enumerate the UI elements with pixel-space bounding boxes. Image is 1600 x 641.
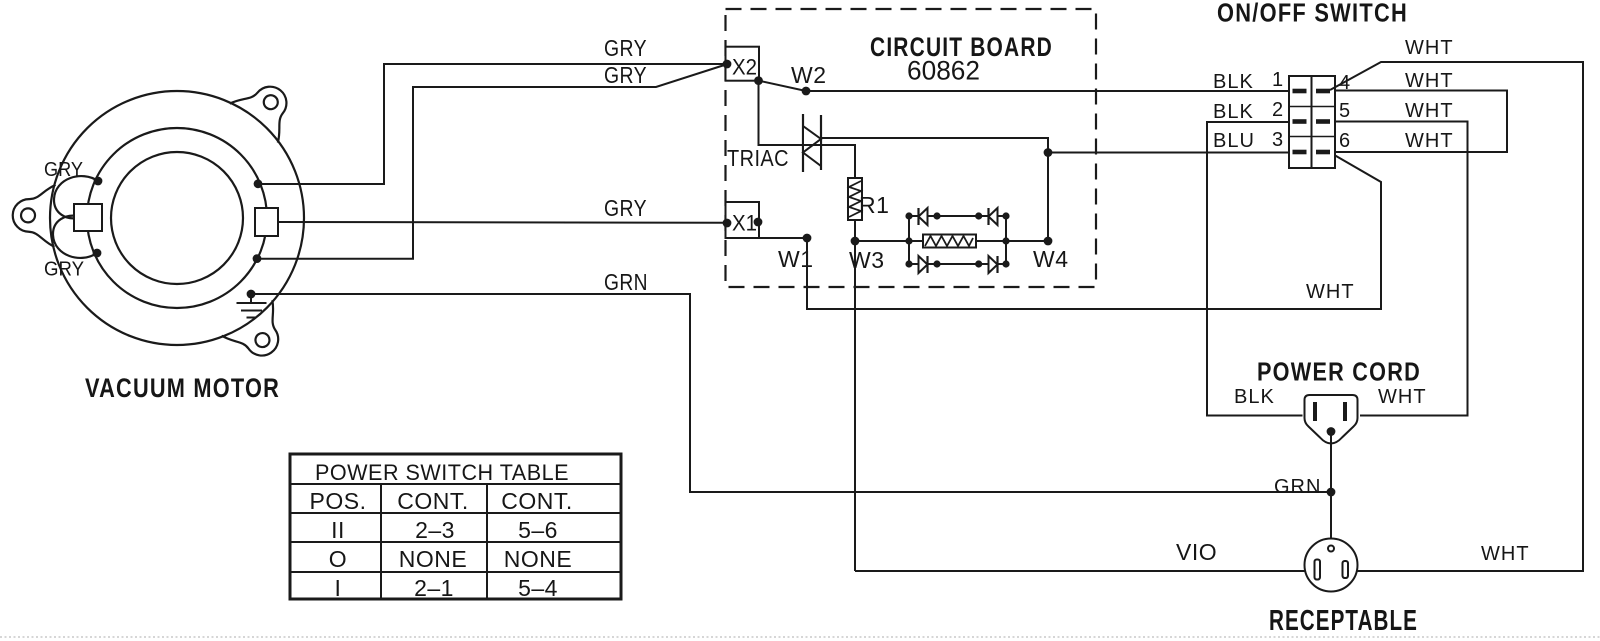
svg-text:6: 6 bbox=[1339, 130, 1351, 152]
power cord plug bbox=[1305, 395, 1358, 444]
node bridge lower mid-right bbox=[975, 260, 982, 267]
svg-text:CONT.: CONT. bbox=[397, 488, 469, 514]
wire bridge upper branch bbox=[909, 215, 1006, 217]
svg-text:POS.: POS. bbox=[310, 488, 367, 514]
wire bridge right column bbox=[1005, 216, 1007, 264]
wire X1 to W1 bbox=[759, 237, 807, 239]
ground bbox=[237, 294, 267, 318]
wire W1 to switch contact 6 bbox=[807, 153, 1381, 310]
svg-text:GRY: GRY bbox=[604, 62, 647, 88]
wire bridge main right (to W4) bbox=[976, 240, 1048, 242]
svg-text:GRN: GRN bbox=[604, 269, 648, 295]
svg-text:WHT: WHT bbox=[1378, 386, 1427, 408]
wire GRN (motor ground to power cord junction) bbox=[251, 294, 1331, 492]
node X2 corner bbox=[754, 76, 763, 85]
motor brush left bbox=[74, 204, 102, 231]
wire bridge left column bbox=[908, 216, 910, 264]
switch contact 2 bbox=[1293, 119, 1307, 124]
wire GRY upper (motor to X2) bbox=[258, 64, 726, 184]
wire GRY second (motor to X2) bbox=[257, 65, 726, 259]
wire triac T2 to node (down to W4) bbox=[822, 138, 1048, 241]
svg-text:2–3: 2–3 bbox=[415, 517, 455, 543]
svg-text:X2: X2 bbox=[732, 55, 757, 80]
node bridge main-right bbox=[1002, 237, 1009, 244]
svg-text:CONT.: CONT. bbox=[501, 488, 573, 514]
svg-text:WHT: WHT bbox=[1306, 281, 1355, 303]
wire W3 down to VIO bbox=[854, 241, 856, 571]
on/off switch body bbox=[1289, 76, 1335, 168]
node GRN junction bbox=[1327, 488, 1336, 497]
svg-text:GRY: GRY bbox=[44, 259, 84, 281]
node motor terminal lower-left bbox=[93, 249, 102, 258]
circuit board dashed border bbox=[726, 9, 1097, 287]
wire R1 bottom lead to W3 bbox=[854, 220, 856, 241]
node motor ground terminal bbox=[247, 290, 256, 299]
node X2 bbox=[723, 60, 732, 69]
svg-text:I: I bbox=[335, 575, 342, 601]
vacuum motor outer housing bbox=[50, 91, 304, 345]
node motor terminal lower-right bbox=[253, 254, 262, 263]
svg-text:WHT: WHT bbox=[1405, 130, 1454, 152]
svg-text:VIO: VIO bbox=[1176, 539, 1217, 565]
wire bridge main left (W3 node) bbox=[855, 240, 923, 242]
resistor bridge middle bbox=[923, 235, 976, 248]
node motor terminal upper-left bbox=[94, 177, 103, 186]
motor mounting ear top-right bbox=[230, 71, 305, 143]
node bridge main-left bbox=[905, 237, 912, 244]
diode upper-left bbox=[919, 208, 928, 225]
svg-text:1: 1 bbox=[1272, 69, 1284, 91]
svg-text:BLU: BLU bbox=[1213, 130, 1255, 152]
svg-text:WHT: WHT bbox=[1405, 37, 1454, 59]
svg-text:BLK: BLK bbox=[1213, 101, 1254, 123]
svg-text:ON/OFF SWITCH: ON/OFF SWITCH bbox=[1217, 0, 1408, 28]
wire TRIAC gate (X2 corner down to R1) bbox=[759, 81, 856, 178]
motor mounting ear bottom-right bbox=[222, 300, 297, 370]
switch contact 5 bbox=[1316, 119, 1330, 124]
wire BLK 2 (switch contact 2 to power cord) bbox=[1207, 122, 1303, 416]
motor field coil upper bbox=[54, 176, 98, 218]
svg-text:GRN: GRN bbox=[1274, 476, 1321, 498]
node X1 bbox=[723, 219, 732, 228]
node bridge lower mid-left bbox=[933, 260, 940, 267]
svg-text:W1: W1 bbox=[778, 246, 814, 272]
svg-text:WHT: WHT bbox=[1405, 70, 1454, 92]
switch contact 4 bbox=[1316, 89, 1330, 94]
svg-text:RECEPTABLE: RECEPTABLE bbox=[1269, 605, 1418, 637]
diode lower-left bbox=[919, 256, 928, 273]
wire VIO to receptacle bbox=[855, 570, 1305, 572]
node BLU junction bbox=[1044, 148, 1053, 157]
wire W2 (X2 to switch contact 1) bbox=[759, 81, 1290, 91]
motor mounting ear left bbox=[12, 184, 55, 247]
wire BLU (node to switch contact 3) bbox=[1048, 152, 1289, 154]
svg-text:W2: W2 bbox=[791, 62, 827, 88]
svg-text:NONE: NONE bbox=[399, 546, 467, 572]
svg-text:3: 3 bbox=[1272, 129, 1284, 151]
node motor terminal upper-right bbox=[254, 179, 263, 188]
terminal X2 bbox=[726, 47, 760, 81]
node X1 corner bbox=[754, 218, 763, 227]
svg-text:BLK: BLK bbox=[1213, 71, 1254, 93]
wire bridge lower branch bbox=[909, 263, 1006, 265]
terminal X1 bbox=[726, 202, 760, 238]
svg-text:GRY: GRY bbox=[604, 195, 647, 221]
node bridge upper mid-left bbox=[933, 212, 940, 219]
svg-text:2–1: 2–1 bbox=[414, 575, 454, 601]
node W4 bbox=[1044, 237, 1053, 246]
receptacle bbox=[1305, 539, 1358, 592]
svg-text:II: II bbox=[331, 517, 345, 543]
node W3 bbox=[851, 237, 860, 246]
wire strap contact 4 to contact 6 bbox=[1335, 91, 1507, 153]
motor rotor bbox=[111, 152, 243, 284]
node bridge lower-left bbox=[905, 260, 912, 267]
wire plug to receptacle bbox=[1330, 432, 1332, 547]
power switch table bbox=[290, 454, 621, 599]
motor field coil lower bbox=[53, 216, 97, 258]
svg-text:5–4: 5–4 bbox=[518, 575, 558, 601]
bottom faint dotted line bbox=[0, 636, 1600, 638]
motor stator ring bbox=[87, 128, 267, 308]
switch contact 3 bbox=[1293, 150, 1307, 155]
wire contact 4 to receptacle WHT bbox=[1330, 62, 1583, 571]
svg-text:GRY: GRY bbox=[604, 35, 647, 61]
svg-text:5: 5 bbox=[1339, 100, 1351, 122]
resistor R1 bbox=[848, 178, 862, 220]
svg-text:BLK: BLK bbox=[1234, 386, 1275, 408]
node bridge upper mid-right bbox=[975, 212, 982, 219]
svg-text:TRIAC: TRIAC bbox=[727, 145, 789, 171]
node bridge lower-right bbox=[1002, 260, 1009, 267]
svg-text:VACUUM MOTOR: VACUUM MOTOR bbox=[85, 373, 280, 403]
node bridge upper-left bbox=[905, 212, 912, 219]
svg-text:60862: 60862 bbox=[907, 56, 980, 86]
switch contact 6 bbox=[1316, 150, 1330, 155]
diode lower-right bbox=[989, 256, 998, 273]
svg-text:WHT: WHT bbox=[1481, 543, 1530, 565]
svg-text:5–6: 5–6 bbox=[518, 517, 558, 543]
motor brush right bbox=[255, 208, 278, 236]
svg-text:X1: X1 bbox=[732, 211, 757, 236]
svg-text:POWER SWITCH TABLE: POWER SWITCH TABLE bbox=[315, 460, 569, 485]
svg-text:POWER CORD: POWER CORD bbox=[1257, 357, 1421, 387]
triac bbox=[803, 114, 821, 172]
svg-text:NONE: NONE bbox=[504, 546, 572, 572]
wire contact 5 to power cord WHT bbox=[1335, 122, 1468, 416]
svg-text:2: 2 bbox=[1272, 99, 1284, 121]
svg-text:R1: R1 bbox=[859, 192, 889, 218]
svg-text:WHT: WHT bbox=[1405, 100, 1454, 122]
wire GRY third (motor brush to X1) bbox=[278, 221, 728, 224]
svg-text:W4: W4 bbox=[1033, 246, 1069, 272]
svg-text:GRY: GRY bbox=[44, 159, 83, 181]
svg-text:O: O bbox=[329, 546, 347, 572]
switch contact 1 bbox=[1293, 89, 1307, 94]
node bridge upper-right bbox=[1002, 212, 1009, 219]
node W1 bbox=[803, 234, 812, 243]
node W2 bbox=[802, 87, 811, 96]
diode upper-right bbox=[989, 208, 998, 225]
